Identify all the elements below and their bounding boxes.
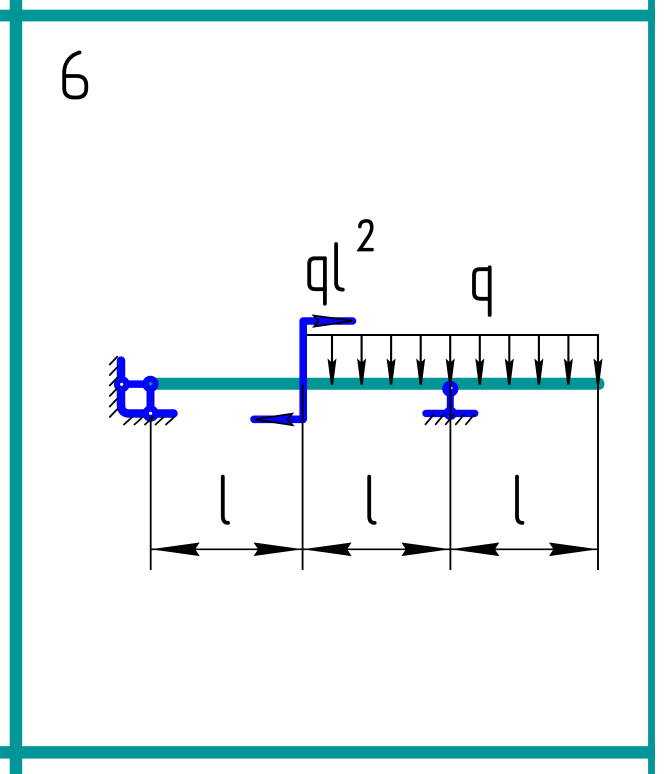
frame left bar xyxy=(10,0,23,774)
dim arrow seg2 right xyxy=(401,543,450,557)
roller support link xyxy=(447,392,454,411)
moment bottom arrowhead xyxy=(255,414,293,426)
moment couple blue Z line xyxy=(254,321,353,419)
dimension line xyxy=(151,548,598,550)
load arrow 2 xyxy=(357,335,366,385)
load arrow 5 xyxy=(446,335,455,385)
distributed load top line xyxy=(303,334,599,336)
frame right bar xyxy=(648,0,655,774)
load arrow 7 xyxy=(505,335,514,385)
load arrow 1 xyxy=(328,335,337,385)
dim arrow seg2 left xyxy=(303,543,352,557)
left support wall hatching xyxy=(110,357,117,417)
load arrow 8 xyxy=(534,335,543,385)
load arrow 4 xyxy=(416,335,425,385)
left support bottom pin xyxy=(142,405,158,421)
beam xyxy=(149,378,604,390)
roller support base bar xyxy=(426,410,475,417)
dim label l seg2 xyxy=(369,477,375,523)
dim arrow seg1 right xyxy=(254,543,303,557)
frame top bar xyxy=(0,10,655,22)
dim arrow seg3 right xyxy=(549,543,598,557)
dim label l seg3 xyxy=(517,477,523,523)
left support base hatching xyxy=(124,417,174,425)
dim arrow seg1 left xyxy=(151,543,200,557)
load label q xyxy=(474,267,490,315)
load arrow 3 xyxy=(387,335,396,385)
dim label l seg1 xyxy=(223,477,228,523)
load arrow 6 xyxy=(475,335,484,385)
moment top arrowhead xyxy=(314,316,354,327)
moment label ql2 xyxy=(309,221,372,304)
left support wall pin xyxy=(114,376,130,392)
left support beam pin xyxy=(142,376,158,392)
frame bottom bar xyxy=(0,746,655,758)
label 6 xyxy=(64,53,86,98)
extension line C xyxy=(449,378,451,570)
extension line D xyxy=(597,364,599,570)
roller support base ball xyxy=(444,407,457,420)
left support horizontal link xyxy=(121,380,151,388)
roller support hatching xyxy=(426,415,474,425)
roller support pin xyxy=(442,381,458,397)
load arrow 9 xyxy=(564,335,573,385)
extension line A xyxy=(150,417,152,571)
left support vertical link xyxy=(147,384,155,413)
extension line B xyxy=(302,385,304,570)
load arrow 10 xyxy=(594,335,603,385)
left support wall+base bar xyxy=(121,361,174,414)
dim arrow seg3 left xyxy=(450,543,499,557)
